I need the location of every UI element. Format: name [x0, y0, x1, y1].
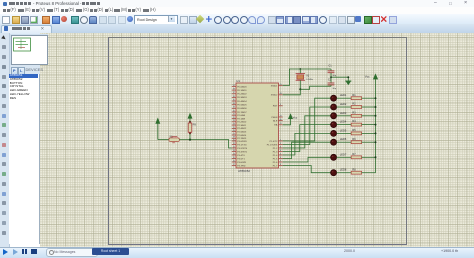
svg-text:LED1: LED1 — [340, 93, 347, 97]
svg-text:LED7: LED7 — [340, 152, 347, 156]
junction rail node — [375, 156, 377, 158]
svg-text:P3.3/INT1: P3.3/INT1 — [237, 151, 248, 153]
svg-text:Vcc: Vcc — [293, 115, 298, 119]
svg-text:XTAL1: XTAL1 — [271, 84, 278, 87]
svg-text:P3.7/RD: P3.7/RD — [237, 165, 246, 167]
button K1 — [169, 135, 180, 143]
svg-text:LED2: LED2 — [340, 102, 347, 106]
LED LED7 — [331, 152, 347, 160]
svg-text:P1.3: P1.3 — [273, 151, 278, 153]
wire R7 to Vcc rail — [362, 156, 376, 158]
wire EA pin to Vcc terminal — [283, 119, 291, 125]
svg-text:P0.7/AD7: P0.7/AD7 — [237, 111, 247, 114]
wire LED6 to R6 — [337, 141, 352, 143]
svg-text:P3.2/INT0: P3.2/INT0 — [237, 148, 248, 150]
LED LED1 — [331, 93, 347, 101]
wire R2 to Vcc rail — [362, 106, 376, 108]
ground — [345, 81, 351, 85]
wire R6 to Vcc rail — [362, 141, 376, 143]
wire LED4 to R4 — [337, 124, 352, 126]
svg-text:P1.6: P1.6 — [273, 162, 278, 164]
capacitor C1 30p — [328, 65, 337, 78]
svg-text:PSEN: PSEN — [271, 117, 277, 119]
wire XTAL2 to crystal bottom — [283, 89, 301, 95]
svg-text:P3.4/T0: P3.4/T0 — [237, 155, 245, 157]
junction rail node — [375, 106, 377, 108]
svg-text:Vcc: Vcc — [365, 75, 370, 79]
wire LED2 to R2 — [337, 106, 352, 108]
wire P1.7 to LED8 — [283, 166, 331, 173]
LED LED2 — [331, 102, 347, 110]
svg-text:P2.3/A11: P2.3/A11 — [237, 124, 247, 127]
svg-text:P0.1/AD1: P0.1/AD1 — [237, 89, 247, 92]
wire R4 to Vcc rail — [362, 124, 376, 126]
svg-text:P3.0/RXD: P3.0/RXD — [237, 141, 247, 143]
wire LED5 to R5 — [337, 132, 352, 134]
wire power to button — [158, 139, 169, 141]
wire XTAL1 to crystal/C1 node — [283, 69, 331, 86]
wire crystal node to C2 — [300, 86, 331, 89]
resistor R6 — [351, 138, 361, 144]
resistor R1 — [351, 94, 361, 100]
junction rail node — [375, 115, 377, 117]
svg-text:P0.3/AD3: P0.3/AD3 — [237, 96, 247, 99]
wire R8 to Vcc rail — [362, 172, 376, 174]
svg-text:P1.0/T2: P1.0/T2 — [270, 141, 278, 143]
power terminal Vcc (rail top) — [365, 74, 378, 79]
U1 right pins XTAL1 XTAL2 RST PSEN ALE EA P1.0-P1.7 — [267, 84, 283, 167]
junction rail node — [375, 124, 377, 126]
svg-text:P0.0/AD0: P0.0/AD0 — [237, 85, 247, 88]
junction crystal bottom node — [299, 88, 301, 90]
svg-text:12MHz: 12MHz — [306, 79, 313, 81]
LED LED4 — [331, 120, 347, 128]
svg-text:P2.2/A10: P2.2/A10 — [237, 121, 247, 124]
svg-text:P1.7: P1.7 — [273, 165, 278, 167]
power terminal Vcc (EA) — [289, 114, 298, 119]
wire LED8 to R8 — [337, 172, 352, 174]
svg-text:P1.1/T2EX: P1.1/T2EX — [267, 144, 278, 146]
svg-text:R9: R9 — [193, 123, 197, 127]
power terminal Vcc above R9 — [188, 114, 192, 121]
resistor R8 — [351, 168, 361, 174]
svg-text:P3.6/WR: P3.6/WR — [237, 162, 246, 164]
U1 left pins P0/P2/P3 with pin numbers — [232, 85, 248, 167]
svg-text:ALE: ALE — [273, 119, 278, 122]
svg-text:P2.5/A13: P2.5/A13 — [237, 131, 247, 134]
power terminal (left of button K1) — [156, 119, 160, 140]
wire button to P3.2 (INT0) — [179, 140, 231, 148]
capacitor C2 30p — [328, 77, 337, 90]
LED LED6 — [331, 137, 347, 145]
resistor R5 — [351, 129, 361, 135]
LED LED3 — [331, 111, 347, 119]
wire P1.3 to LED4 — [283, 125, 331, 152]
svg-text:LED3: LED3 — [340, 111, 347, 115]
svg-text:P0.5/AD5: P0.5/AD5 — [237, 104, 247, 107]
node XTAL1/crystal junction — [299, 68, 301, 70]
wire R5 to Vcc rail — [362, 132, 376, 134]
junction node (button/resistor) — [189, 139, 191, 141]
op-amp U1 MCU AT89C52 body — [236, 79, 279, 173]
wire P1.6 to LED7 — [283, 157, 331, 162]
svg-text:P3.1/TXD: P3.1/TXD — [237, 144, 247, 146]
wire P1.0 to LED1 — [283, 98, 331, 141]
junction rail node — [375, 141, 377, 143]
junction cap/ground tap — [330, 76, 349, 78]
svg-text:P2.0/A8: P2.0/A8 — [237, 114, 246, 117]
wire LED1 to R1 — [337, 97, 352, 99]
svg-text:P3.5/T1: P3.5/T1 — [237, 158, 245, 160]
svg-text:AT89C52: AT89C52 — [238, 169, 250, 173]
wire caps midpoint to ground — [331, 77, 348, 81]
wire R1 to Vcc rail — [362, 97, 376, 99]
resistor R3 — [351, 111, 361, 117]
junction rail node — [375, 97, 377, 99]
resistor R4 — [351, 120, 361, 126]
wire LED7 to R7 — [337, 156, 352, 158]
wire R3 to Vcc rail — [362, 115, 376, 117]
svg-text:RST: RST — [273, 106, 278, 108]
junction rail node — [375, 132, 377, 134]
svg-text:LED4: LED4 — [340, 120, 347, 124]
resistor R7 — [351, 153, 361, 159]
svg-text:P1.5: P1.5 — [273, 158, 278, 160]
svg-text:P1.2: P1.2 — [273, 148, 278, 150]
LED LED8 — [331, 168, 347, 176]
svg-text:P2.7/A15: P2.7/A15 — [237, 137, 247, 140]
wire Vcc rail vertical — [375, 79, 377, 173]
svg-text:LED8: LED8 — [340, 168, 347, 172]
svg-text:LED6: LED6 — [340, 137, 347, 141]
crystal X1 12MHz — [296, 69, 314, 89]
svg-text:P0.2/AD2: P0.2/AD2 — [237, 93, 247, 96]
svg-text:P0.4/AD4: P0.4/AD4 — [237, 100, 247, 103]
LED LED5 — [331, 128, 347, 136]
svg-text:P2.4/A12: P2.4/A12 — [237, 127, 247, 130]
wire P1.4 to LED5 — [283, 133, 331, 155]
resistor R2 — [351, 103, 361, 109]
svg-text:LED5: LED5 — [340, 128, 347, 132]
wire P1.5 to LED6 — [283, 142, 331, 158]
svg-text:P0.6/AD6: P0.6/AD6 — [237, 107, 247, 110]
resistor R9 pull-up — [188, 121, 196, 140]
svg-text:P2.1/A9: P2.1/A9 — [237, 117, 246, 120]
svg-text:P2.6/A14: P2.6/A14 — [237, 134, 247, 137]
wire P1.2 to LED3 — [283, 116, 331, 148]
wire LED3 to R3 — [337, 115, 352, 117]
svg-text:P1.4: P1.4 — [273, 155, 278, 157]
svg-text:XTAL2: XTAL2 — [271, 94, 278, 97]
svg-text:U1: U1 — [236, 79, 240, 83]
wire P1.1 to LED2 — [283, 107, 331, 145]
